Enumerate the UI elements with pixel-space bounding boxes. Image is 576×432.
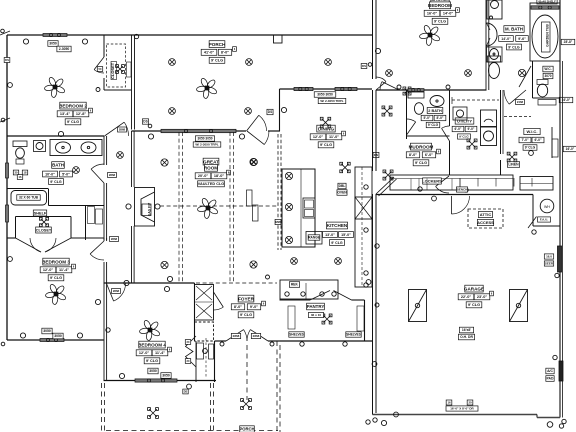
svg-text:22'-0": 22'-0" <box>461 295 472 299</box>
bedroom2 window dim tags <box>48 41 58 47</box>
wic walls <box>551 127 553 158</box>
svg-text:9'-0": 9'-0" <box>250 305 258 309</box>
linen labels vertical <box>88 207 95 224</box>
wall great room north <box>132 130 247 132</box>
door mbath-wc <box>519 66 531 87</box>
svg-text:3050: 3050 <box>162 374 170 378</box>
svg-text:9' CLG: 9' CLG <box>331 241 343 245</box>
window west wall bath <box>6 163 9 178</box>
svg-text:PORCH: PORCH <box>239 427 254 432</box>
bedroom2 closet south wall <box>104 89 132 91</box>
garage opener right <box>510 290 528 322</box>
cased opening posts <box>247 190 253 206</box>
bedroom4 circles <box>95 299 100 304</box>
linen closet wall <box>85 206 87 241</box>
svg-text:2868: 2868 <box>119 128 126 132</box>
svg-text:W/ 2-3050 TRPL: W/ 2-3050 TRPL <box>320 99 343 103</box>
front double door <box>226 330 244 341</box>
door bedroom3 <box>90 241 104 254</box>
exterior circles bottom <box>394 412 399 417</box>
svg-text:13'-4": 13'-4" <box>60 112 71 116</box>
water heater closet door <box>528 217 537 229</box>
water heater closet <box>532 195 534 227</box>
svg-text:O.H. DR: O.H. DR <box>460 335 473 339</box>
closet3 double doors <box>16 238 42 252</box>
fireplace GAS F/P <box>135 188 155 227</box>
svg-text:GARAGE: GARAGE <box>464 286 484 291</box>
svg-text:5'-0": 5'-0" <box>424 116 431 120</box>
bath2 label <box>427 108 443 114</box>
svg-text:LOCKERS: LOCKERS <box>422 178 442 183</box>
svg-text:3050 3050: 3050 3050 <box>317 93 333 97</box>
wall master south <box>376 89 399 91</box>
svg-text:8'-0": 8'-0" <box>409 153 417 157</box>
svg-text:BEDROOM 2: BEDROOM 2 <box>59 103 87 108</box>
svg-text:UTILITY: UTILITY <box>457 118 472 123</box>
door hall-bath <box>91 169 104 183</box>
wall bedroom4 north (hall side) <box>104 282 132 284</box>
svg-text:SHELVES: SHELVES <box>346 333 361 337</box>
bath makeup cabinet <box>34 141 46 152</box>
ridge dashed line <box>160 205 277 207</box>
window bedroom3 south <box>40 339 64 342</box>
wall pantry east <box>364 300 366 341</box>
front door tags <box>231 333 240 338</box>
wall utility west <box>449 90 451 126</box>
svg-text:MUDROOM: MUDROOM <box>409 144 434 149</box>
svg-text:16.0: 16.0 <box>546 255 552 259</box>
master bedroom label block <box>431 0 449 3</box>
svg-text:ATTIC: ATTIC <box>480 212 492 217</box>
door bedroom2 closet <box>94 57 104 70</box>
garage opener left <box>409 290 427 322</box>
bath tag cluster <box>13 170 18 175</box>
pantry small tags <box>309 312 324 317</box>
svg-text:12'-8": 12'-8" <box>76 112 87 116</box>
svg-text:2868: 2868 <box>253 334 260 338</box>
wall pantry south <box>280 340 373 342</box>
svg-text:16'-0": 16'-0" <box>566 147 575 151</box>
DS tag <box>142 119 148 124</box>
wall bedroom4 south <box>104 380 217 382</box>
hall junction box <box>507 152 517 162</box>
svg-text:9' CLG: 9' CLG <box>146 359 158 363</box>
door mbath entry <box>509 90 526 104</box>
ceiling fan bedroom4 <box>139 319 161 341</box>
kitchen east counter <box>355 167 372 287</box>
svg-text:9' CLG: 9' CLG <box>50 276 62 280</box>
wall bath south <box>49 205 105 207</box>
svg-text:2-3050: 2-3050 <box>59 47 70 51</box>
svg-text:9' CLG: 9' CLG <box>320 143 332 147</box>
svg-text:12'-0": 12'-0" <box>313 135 324 139</box>
porch west edge dashed <box>101 383 103 432</box>
svg-text:MW: MW <box>275 220 280 224</box>
dining junction light <box>320 117 330 127</box>
svg-text:3050: 3050 <box>149 369 157 373</box>
svg-text:W/ 2-3050 TRPL: W/ 2-3050 TRPL <box>195 143 218 147</box>
svg-text:11'-0": 11'-0" <box>329 135 339 139</box>
door bedroom2 <box>105 122 125 136</box>
mudroom label block <box>410 143 431 150</box>
svg-text:OVEN: OVEN <box>337 191 347 195</box>
light bath <box>73 167 80 174</box>
left margin tick lower <box>1 342 5 346</box>
wic label block <box>524 128 540 134</box>
porch label block <box>209 41 225 48</box>
svg-text:PANTRY: PANTRY <box>307 304 325 309</box>
ceiling break dashed south <box>196 282 277 284</box>
svg-text:20'-0": 20'-0" <box>198 174 209 178</box>
svg-text:2 BATH: 2 BATH <box>428 109 442 113</box>
porch lights bottom <box>148 408 159 419</box>
island pendant lights <box>285 172 292 179</box>
bath vanity counter <box>50 140 102 156</box>
wall bedroom4 west <box>103 283 105 381</box>
porch ds tag near wall <box>361 64 367 69</box>
ceiling fan bedroom2 <box>44 76 66 98</box>
great room circles <box>148 134 153 139</box>
pantry light <box>322 314 332 324</box>
door master south <box>382 82 399 90</box>
shelf label <box>33 210 46 216</box>
door tag mbath hall <box>516 100 525 105</box>
svg-text:16: 16 <box>447 401 451 405</box>
refrigerator <box>355 197 372 219</box>
svg-text:32 X 60 TUB: 32 X 60 TUB <box>19 196 39 200</box>
svg-text:9'-6": 9'-6" <box>518 37 526 41</box>
svg-text:9' CLG: 9' CLG <box>459 135 469 139</box>
window bath2 on wall <box>408 89 424 92</box>
master wall box <box>403 87 411 95</box>
svg-text:BEDROOM 3: BEDROOM 3 <box>42 259 70 264</box>
svg-text:16'x8': 16'x8' <box>462 328 471 332</box>
door bedroom4 <box>107 284 114 302</box>
kitchen sink <box>303 198 315 218</box>
svg-text:8'-0": 8'-0" <box>437 116 444 120</box>
seer label <box>544 254 553 259</box>
svg-text:SHELF: SHELF <box>34 211 47 215</box>
svg-text:VAULTED CLG: VAULTED CLG <box>198 182 224 186</box>
door foyer closet <box>214 292 224 307</box>
water closet walls <box>532 61 534 98</box>
svg-text:9' CLG: 9' CLG <box>67 120 79 124</box>
closet under stairs <box>195 322 214 341</box>
linen room label <box>507 162 519 168</box>
door garage entry <box>451 196 453 214</box>
pantry label <box>307 303 325 310</box>
bedroom4 label block <box>139 341 165 348</box>
svg-text:DS: DS <box>143 120 147 124</box>
svg-text:8'-0": 8'-0" <box>234 305 242 309</box>
kitchen junction box <box>340 162 350 172</box>
junction boxes right wing <box>382 106 392 116</box>
wall garage north <box>376 194 533 196</box>
master vanity sink <box>487 47 503 62</box>
hall door tags <box>118 127 127 132</box>
west wall ds tag <box>4 58 10 63</box>
closet3 label <box>36 227 52 233</box>
svg-text:BENCH: BENCH <box>457 188 468 192</box>
svg-text:9' CLG: 9' CLG <box>428 123 439 127</box>
svg-text:PAD: PAD <box>547 377 554 381</box>
right margin tag 2 <box>559 97 573 102</box>
bedroom3 label block <box>43 258 69 265</box>
svg-text:PORCH: PORCH <box>209 42 226 47</box>
svg-text:MASTER: MASTER <box>430 0 450 2</box>
kitchen lights south <box>291 258 298 265</box>
door master from porch <box>376 82 386 90</box>
svg-text:13'-0": 13'-0" <box>325 233 335 237</box>
svg-text:BATH: BATH <box>52 163 64 168</box>
svg-text:9' CLG: 9' CLG <box>434 20 446 24</box>
svg-text:2868: 2868 <box>113 289 120 293</box>
tray ceiling dashed east pair <box>229 132 231 282</box>
bath toilet <box>16 148 25 158</box>
dining window tags <box>314 92 336 98</box>
bifold door bedroom4 closet <box>186 336 197 367</box>
light nook <box>251 159 258 166</box>
porch circle on wall <box>375 48 380 53</box>
svg-text:8'-0": 8'-0" <box>221 51 229 55</box>
svg-text:3050: 3050 <box>49 42 57 46</box>
door utility <box>442 128 450 141</box>
bath2 vanity <box>408 92 424 98</box>
wc toilet <box>537 84 547 97</box>
wall dining west <box>279 89 281 131</box>
door mudroom-hall <box>436 176 449 186</box>
garage label block <box>465 285 483 292</box>
bath label block <box>52 162 65 169</box>
svg-text:3050: 3050 <box>54 334 62 338</box>
wall master east <box>485 0 487 90</box>
washer dryer <box>481 110 497 127</box>
wall: bedroom2 south <box>7 135 104 137</box>
ceiling fan bedroom3 <box>45 283 67 305</box>
window bedroom2 north <box>43 34 67 37</box>
bench circles <box>418 187 422 191</box>
attic access dashed <box>468 209 503 228</box>
bedroom3 window tags <box>42 328 52 334</box>
porch wall lights <box>300 342 304 346</box>
svg-text:2868: 2868 <box>111 237 118 241</box>
svg-text:5'-0": 5'-0" <box>62 172 70 176</box>
svg-text:W.C.: W.C. <box>544 67 551 71</box>
closet shelving dashed <box>107 44 126 87</box>
svg-text:11'-4": 11'-4" <box>59 268 69 272</box>
foyer hall closet <box>195 285 214 321</box>
light hall <box>117 152 124 159</box>
window band dining <box>294 87 313 90</box>
svg-text:SHELVES: SHELVES <box>289 333 304 337</box>
lockers bench <box>390 175 513 190</box>
svg-text:KITCHEN: KITCHEN <box>327 223 348 228</box>
svg-text:3050 3050: 3050 3050 <box>197 137 212 141</box>
wall: bedroom2 east <box>131 35 133 130</box>
svg-text:GARDEN TUB: GARDEN TUB <box>546 24 550 47</box>
smoke detector bedroom2 circles <box>23 39 28 44</box>
left margin tick <box>1 118 5 122</box>
range <box>306 232 322 245</box>
top-left dim tick <box>1 29 5 33</box>
wall: west exterior <box>6 35 8 340</box>
ceiling fan master <box>419 24 441 46</box>
svg-text:CLOSET: CLOSET <box>36 228 52 232</box>
closet light <box>116 65 125 74</box>
pantry shelves verticals <box>288 306 295 329</box>
microwave tag <box>275 219 281 224</box>
wall mudroom north <box>407 135 450 137</box>
utility label <box>455 118 474 124</box>
ovens label <box>338 183 346 189</box>
svg-text:36 x 10: 36 x 10 <box>311 313 322 317</box>
svg-text:2468: 2468 <box>517 100 524 104</box>
bedroom4 window tags <box>148 368 158 374</box>
svg-text:GREAT: GREAT <box>203 159 219 164</box>
light closet3 <box>39 217 48 226</box>
svg-text:6'-0": 6'-0" <box>534 138 542 142</box>
porch bottom dashed edge <box>106 430 278 432</box>
porch storage closet <box>214 341 216 382</box>
svg-text:DBL: DBL <box>339 184 346 188</box>
dashed kitchen-dining break <box>277 134 279 250</box>
svg-text:2868: 2868 <box>109 173 116 177</box>
wall hall west upper <box>103 136 105 165</box>
ds tag on wall <box>373 152 379 157</box>
wall hall west lower <box>103 183 105 240</box>
svg-text:FOYER: FOYER <box>238 296 255 301</box>
garage west wall circles <box>375 244 379 248</box>
svg-text:15'-0": 15'-0" <box>341 233 351 237</box>
closet rod label right <box>127 62 132 77</box>
rear door to mudroom hall <box>376 177 394 194</box>
garden tub block <box>530 3 560 61</box>
window west wall near tub <box>6 205 9 222</box>
svg-text:23'-0": 23'-0" <box>477 295 488 299</box>
svg-text:DS: DS <box>362 64 366 68</box>
wall garage east <box>559 0 561 418</box>
garage door label <box>459 327 473 333</box>
wall utility east <box>500 90 502 154</box>
window bedroom4 <box>135 379 177 382</box>
svg-text:9' CLG: 9' CLG <box>508 45 520 49</box>
svg-text:9' CLG: 9' CLG <box>525 146 536 150</box>
svg-text:6'-0": 6'-0" <box>425 153 433 157</box>
garage bottom dim labels <box>446 406 478 411</box>
svg-text:A/C: A/C <box>547 369 553 373</box>
closet label vertical <box>111 62 117 80</box>
svg-text:DS: DS <box>5 58 9 62</box>
shower master <box>487 0 502 19</box>
wall great room west <box>131 131 133 187</box>
built-in cabinet right of lockers <box>520 177 553 191</box>
svg-text:9' CLG: 9' CLG <box>211 59 223 63</box>
svg-text:7'-0": 7'-0" <box>521 138 529 142</box>
svg-text:DS: DS <box>268 110 272 114</box>
closet door tag <box>97 67 102 72</box>
bath sink left <box>56 142 71 153</box>
svg-text:12'-0": 12'-0" <box>43 268 54 272</box>
svg-text:ACCESS: ACCESS <box>477 220 494 225</box>
svg-text:41'-0": 41'-0" <box>204 51 215 55</box>
mbath label block <box>504 26 524 33</box>
svg-text:3050: 3050 <box>43 329 51 333</box>
wc labels <box>543 66 553 72</box>
svg-text:9' CLG: 9' CLG <box>415 161 427 165</box>
svg-text:9' CLG: 9' CLG <box>240 313 252 317</box>
great room label block <box>203 158 219 165</box>
outer wall: porch/bedroom2 top wall <box>7 34 372 36</box>
wall foyer west <box>194 283 196 341</box>
ceiling fan great room <box>197 197 219 219</box>
great room window tags <box>195 136 214 141</box>
ac pad label <box>546 368 554 374</box>
dining label block <box>317 125 335 132</box>
window garage east upper (black) <box>558 246 562 272</box>
bath2 toilet <box>414 103 423 115</box>
bath2 sink <box>430 96 444 107</box>
bedroom2 closet west wall <box>103 35 105 57</box>
window band great room north <box>161 129 236 132</box>
wall great room west lower <box>131 226 133 283</box>
counter circles <box>364 185 368 189</box>
svg-text:BEDROOM 4: BEDROOM 4 <box>138 342 166 347</box>
kitchen south counter <box>280 280 338 299</box>
porch label bottom <box>240 426 255 432</box>
porch lights <box>169 59 176 66</box>
svg-text:DS: DS <box>184 389 188 393</box>
pantry double doors <box>310 291 330 301</box>
lockers dividers <box>410 179 412 191</box>
bath sink right <box>81 142 96 153</box>
closet3 walls <box>16 216 72 218</box>
svg-text:10'-0": 10'-0" <box>45 172 55 176</box>
shelf tag above tub <box>537 0 557 4</box>
svg-text:SEER: SEER <box>545 262 554 266</box>
svg-text:28'-8": 28'-8" <box>564 40 573 44</box>
tub alcove walls <box>7 188 48 190</box>
svg-text:14'-0": 14'-0" <box>443 12 454 16</box>
wall bedroom3 north <box>7 237 16 239</box>
foyer label block <box>238 295 254 302</box>
svg-text:3070: 3070 <box>544 74 551 78</box>
wall bedroom3 east / hall <box>103 238 105 241</box>
right margin dim tags <box>561 39 575 44</box>
wall great room south <box>132 282 195 284</box>
svg-text:14'-0": 14'-0" <box>501 37 511 41</box>
svg-text:GAS F/P: GAS F/P <box>148 202 152 216</box>
wall garage south <box>373 414 538 416</box>
bath cabinet <box>13 141 27 147</box>
door bath2 <box>407 122 416 135</box>
chimney bump on porch wall <box>274 35 283 43</box>
utility sink <box>453 107 467 120</box>
svg-text:18'-0": 18'-0" <box>214 174 225 178</box>
kitchen island <box>282 169 315 247</box>
wall foyer south / front door <box>215 340 227 342</box>
wall dining north <box>280 88 373 90</box>
svg-text:W.I.C.: W.I.C. <box>527 129 538 134</box>
svg-text:20: 20 <box>468 401 472 405</box>
svg-text:CLOSET: CLOSET <box>110 62 115 79</box>
pantry shelves labels <box>289 332 304 337</box>
svg-text:16'-0": 16'-0" <box>427 12 438 16</box>
porch ceiling fan <box>196 77 218 99</box>
porch dashed lines <box>210 383 212 432</box>
bedroom2 label block <box>60 102 86 109</box>
DS tag dining <box>267 109 273 114</box>
lockers label <box>423 178 442 184</box>
